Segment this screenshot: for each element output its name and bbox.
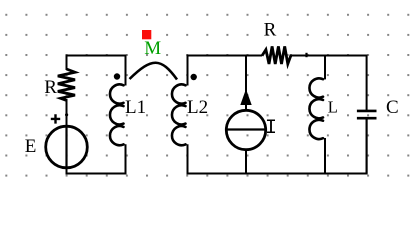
wire left loop bottom <box>67 144 126 173</box>
wire resistor to source <box>66 99 68 127</box>
svg-text:L: L <box>328 97 338 116</box>
inductor L2 <box>172 84 186 145</box>
wire current source top lead <box>245 56 247 111</box>
wire joint tick <box>305 53 307 57</box>
wire right loop top left part <box>188 56 263 86</box>
current source I <box>226 110 265 149</box>
arrow of current source <box>240 89 251 105</box>
wire inductor L bottom lead <box>324 138 326 174</box>
plus sign of E <box>51 114 60 123</box>
svg-text:I: I <box>265 117 277 140</box>
wire capacitor bottom lead <box>366 119 368 174</box>
svg-text:E: E <box>25 136 37 157</box>
svg-text:L1: L1 <box>125 97 146 118</box>
polarity dot L2 <box>191 74 197 80</box>
wire current source bottom lead <box>245 150 247 174</box>
inductor L1 <box>110 84 124 145</box>
wire right loop bottom rail <box>188 119 367 174</box>
inductor L <box>309 78 323 139</box>
resistor R (top branch) <box>262 46 292 64</box>
svg-text:C: C <box>386 97 399 118</box>
svg-text:L2: L2 <box>187 97 208 118</box>
svg-text:M: M <box>144 38 161 59</box>
polarity dot L1 <box>114 73 120 79</box>
svg-text:R: R <box>44 77 57 98</box>
wire left loop top <box>67 56 126 86</box>
resistor R (left branch) <box>58 69 75 100</box>
wire right loop top right part <box>292 56 367 111</box>
voltage source E <box>46 126 88 168</box>
wire inductor L top lead <box>324 56 326 80</box>
coupling arc M <box>130 63 178 80</box>
capacitor C plates <box>357 111 377 118</box>
svg-text:R: R <box>264 20 277 41</box>
wire joint nub <box>65 113 68 116</box>
red marker square <box>142 30 151 39</box>
